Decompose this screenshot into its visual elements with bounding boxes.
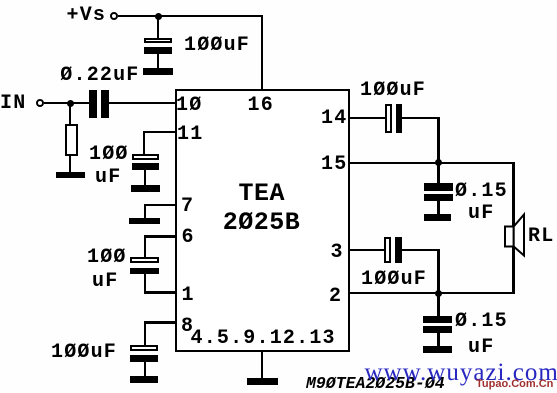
speaker RL: [495, 208, 535, 264]
pin 14: [321, 109, 347, 129]
wire pin 2: [350, 292, 515, 294]
label U1 TEA: [239, 181, 286, 206]
wire R1 to ground: [69, 156, 71, 172]
wire pin 7: [144, 204, 176, 206]
wire C5 to node A: [402, 117, 439, 119]
label C9 0.22uF: [60, 66, 139, 86]
pin 11: [177, 125, 203, 145]
+Vs label: [67, 6, 107, 26]
node A: [435, 159, 442, 166]
capacitor C7 100uF: [384, 237, 391, 263]
wire pin 15: [350, 162, 514, 164]
wire pin 14: [350, 117, 385, 119]
IN terminal: [36, 99, 44, 107]
label C4 100uF: [51, 343, 117, 363]
wire pin 11: [143, 131, 175, 133]
wire C3 to pin 1: [144, 274, 146, 293]
wire node B to C8: [437, 293, 439, 317]
ground C1: [143, 68, 173, 75]
pin 6: [182, 228, 195, 248]
capacitor C5 100uF: [385, 104, 392, 133]
pin 8: [181, 317, 194, 337]
label C7 100uF: [361, 270, 427, 290]
label U1 2025B: [223, 210, 301, 235]
pin 1: [182, 286, 195, 306]
ground R1: [56, 172, 85, 179]
pin 2: [329, 287, 342, 307]
resistor R1: [65, 124, 79, 156]
capacitor C6 0.15uF: [424, 183, 453, 191]
ground IC: [247, 378, 278, 385]
pin 7: [181, 197, 194, 217]
node input junction: [67, 100, 74, 107]
ground C6: [424, 214, 452, 221]
wire pin 3: [350, 249, 385, 251]
wire C7 to node B: [402, 249, 440, 251]
pin 10: [176, 96, 202, 116]
wire C9 to pin 10: [109, 102, 175, 104]
ground C8: [423, 346, 453, 354]
node Vs junction: [155, 13, 162, 20]
wire right rail lower: [512, 246, 514, 294]
wire right rail upper: [512, 162, 514, 227]
wire +Vs rail: [118, 15, 263, 17]
capacitor C9 0.22uF: [89, 90, 97, 118]
capacitor C4 100uF: [130, 345, 158, 351]
label C8 0.15 uF: [455, 312, 508, 332]
pins 4.5.9.12.13: [191, 329, 336, 349]
label C2 100 uF: [89, 145, 129, 165]
wire junction to C1: [157, 16, 159, 38]
ground C4: [130, 376, 158, 384]
ground pin 7: [129, 218, 160, 224]
wire pin 8: [144, 321, 176, 323]
wire node A to C6: [437, 163, 439, 184]
wire pin 6: [144, 235, 176, 237]
wire IN to C9: [44, 102, 89, 104]
watermark www.wuyazi.com: [365, 360, 557, 385]
op-amp U1 TEA2025B body: [175, 89, 350, 352]
pin 16: [248, 96, 274, 116]
capacitor C8 0.15uF: [423, 316, 453, 323]
capacitor C1 100uF: [144, 38, 172, 44]
wire IC ground stub: [261, 351, 263, 379]
pin 15: [321, 155, 347, 175]
capacitor C2 100uF: [132, 154, 159, 160]
pin 3: [331, 243, 344, 263]
capacitor C3 100uF: [130, 257, 160, 262]
watermark Tupao.Com.Cn: [476, 379, 553, 390]
wire junction to R1: [69, 104, 71, 124]
IN label: [0, 94, 26, 114]
label RL: [528, 227, 554, 247]
label M90TEA2025B 04: [306, 376, 445, 393]
+Vs terminal: [110, 12, 118, 20]
label C6 0.15 uF: [455, 182, 508, 202]
ground C2: [131, 185, 160, 192]
label C5 100uF: [360, 81, 426, 101]
node B: [435, 290, 442, 297]
wire pin 16 drop: [261, 15, 263, 89]
label C1 100uF: [184, 36, 250, 56]
label C3 100 uF: [87, 248, 127, 268]
